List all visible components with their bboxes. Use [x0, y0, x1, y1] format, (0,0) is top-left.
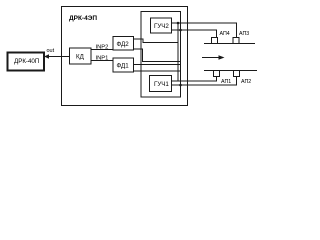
block KD	[70, 48, 92, 64]
svg-text:ГУЧ2: ГУЧ2	[154, 23, 169, 30]
svg-text:INP2: INP2	[96, 45, 109, 51]
svg-text:ФД1: ФД1	[117, 63, 130, 70]
junction dot V1 top	[177, 22, 180, 25]
wire GUCh2 upper to AP3	[172, 23, 237, 38]
transducer AP2	[234, 71, 240, 77]
wire FD1 upper tap	[134, 64, 181, 66]
svg-text:ДРК-40П: ДРК-40П	[14, 58, 39, 65]
svg-text:АП3: АП3	[239, 31, 249, 37]
transducer AP1	[214, 71, 220, 77]
svg-text:ДРК-4ЭП: ДРК-4ЭП	[69, 15, 97, 22]
block FD1	[113, 58, 134, 72]
wire FD1 lower tap	[134, 70, 181, 72]
wire INP2: KD to FD2	[91, 49, 113, 51]
junction dot V2 top	[179, 29, 182, 32]
wire INP1: KD to FD1	[91, 60, 113, 62]
wire vertical bus V1	[177, 23, 179, 81]
pipe wall lower	[204, 70, 257, 72]
svg-text:out: out	[47, 48, 55, 54]
wire GUCh1 upper to AP1	[172, 77, 217, 82]
electronics unit inner box	[141, 12, 181, 98]
block DRK-40P	[8, 53, 45, 71]
svg-text:ГУЧ1: ГУЧ1	[154, 81, 169, 88]
wire GUCh2 lower to AP4	[172, 30, 217, 38]
block GUCh2	[151, 18, 172, 33]
svg-text:АП4: АП4	[220, 31, 230, 37]
wire FD2 upper tap	[134, 39, 179, 43]
svg-text:INP1: INP1	[96, 56, 109, 62]
transducer AP3	[233, 38, 239, 44]
svg-text:КД: КД	[76, 54, 85, 61]
svg-text:ФД2: ФД2	[117, 41, 130, 48]
svg-text:АП1: АП1	[221, 79, 231, 85]
transducer AP4	[212, 38, 218, 44]
wire vertical bus V2	[180, 30, 182, 85]
wire GUCh1 lower to AP2	[172, 77, 237, 86]
flow arrow	[202, 55, 225, 59]
block FD2	[113, 37, 134, 51]
svg-text:АП2: АП2	[241, 79, 251, 85]
junction dot V2 bottom	[179, 84, 182, 87]
block GUCh1	[150, 76, 172, 92]
wire out: KD to DRK-40P	[44, 56, 70, 58]
wire FD2 lower tap	[134, 49, 181, 62]
arrowhead out	[44, 54, 49, 58]
pipe wall upper	[204, 43, 255, 45]
block DRK-4EP outer box	[62, 7, 188, 106]
